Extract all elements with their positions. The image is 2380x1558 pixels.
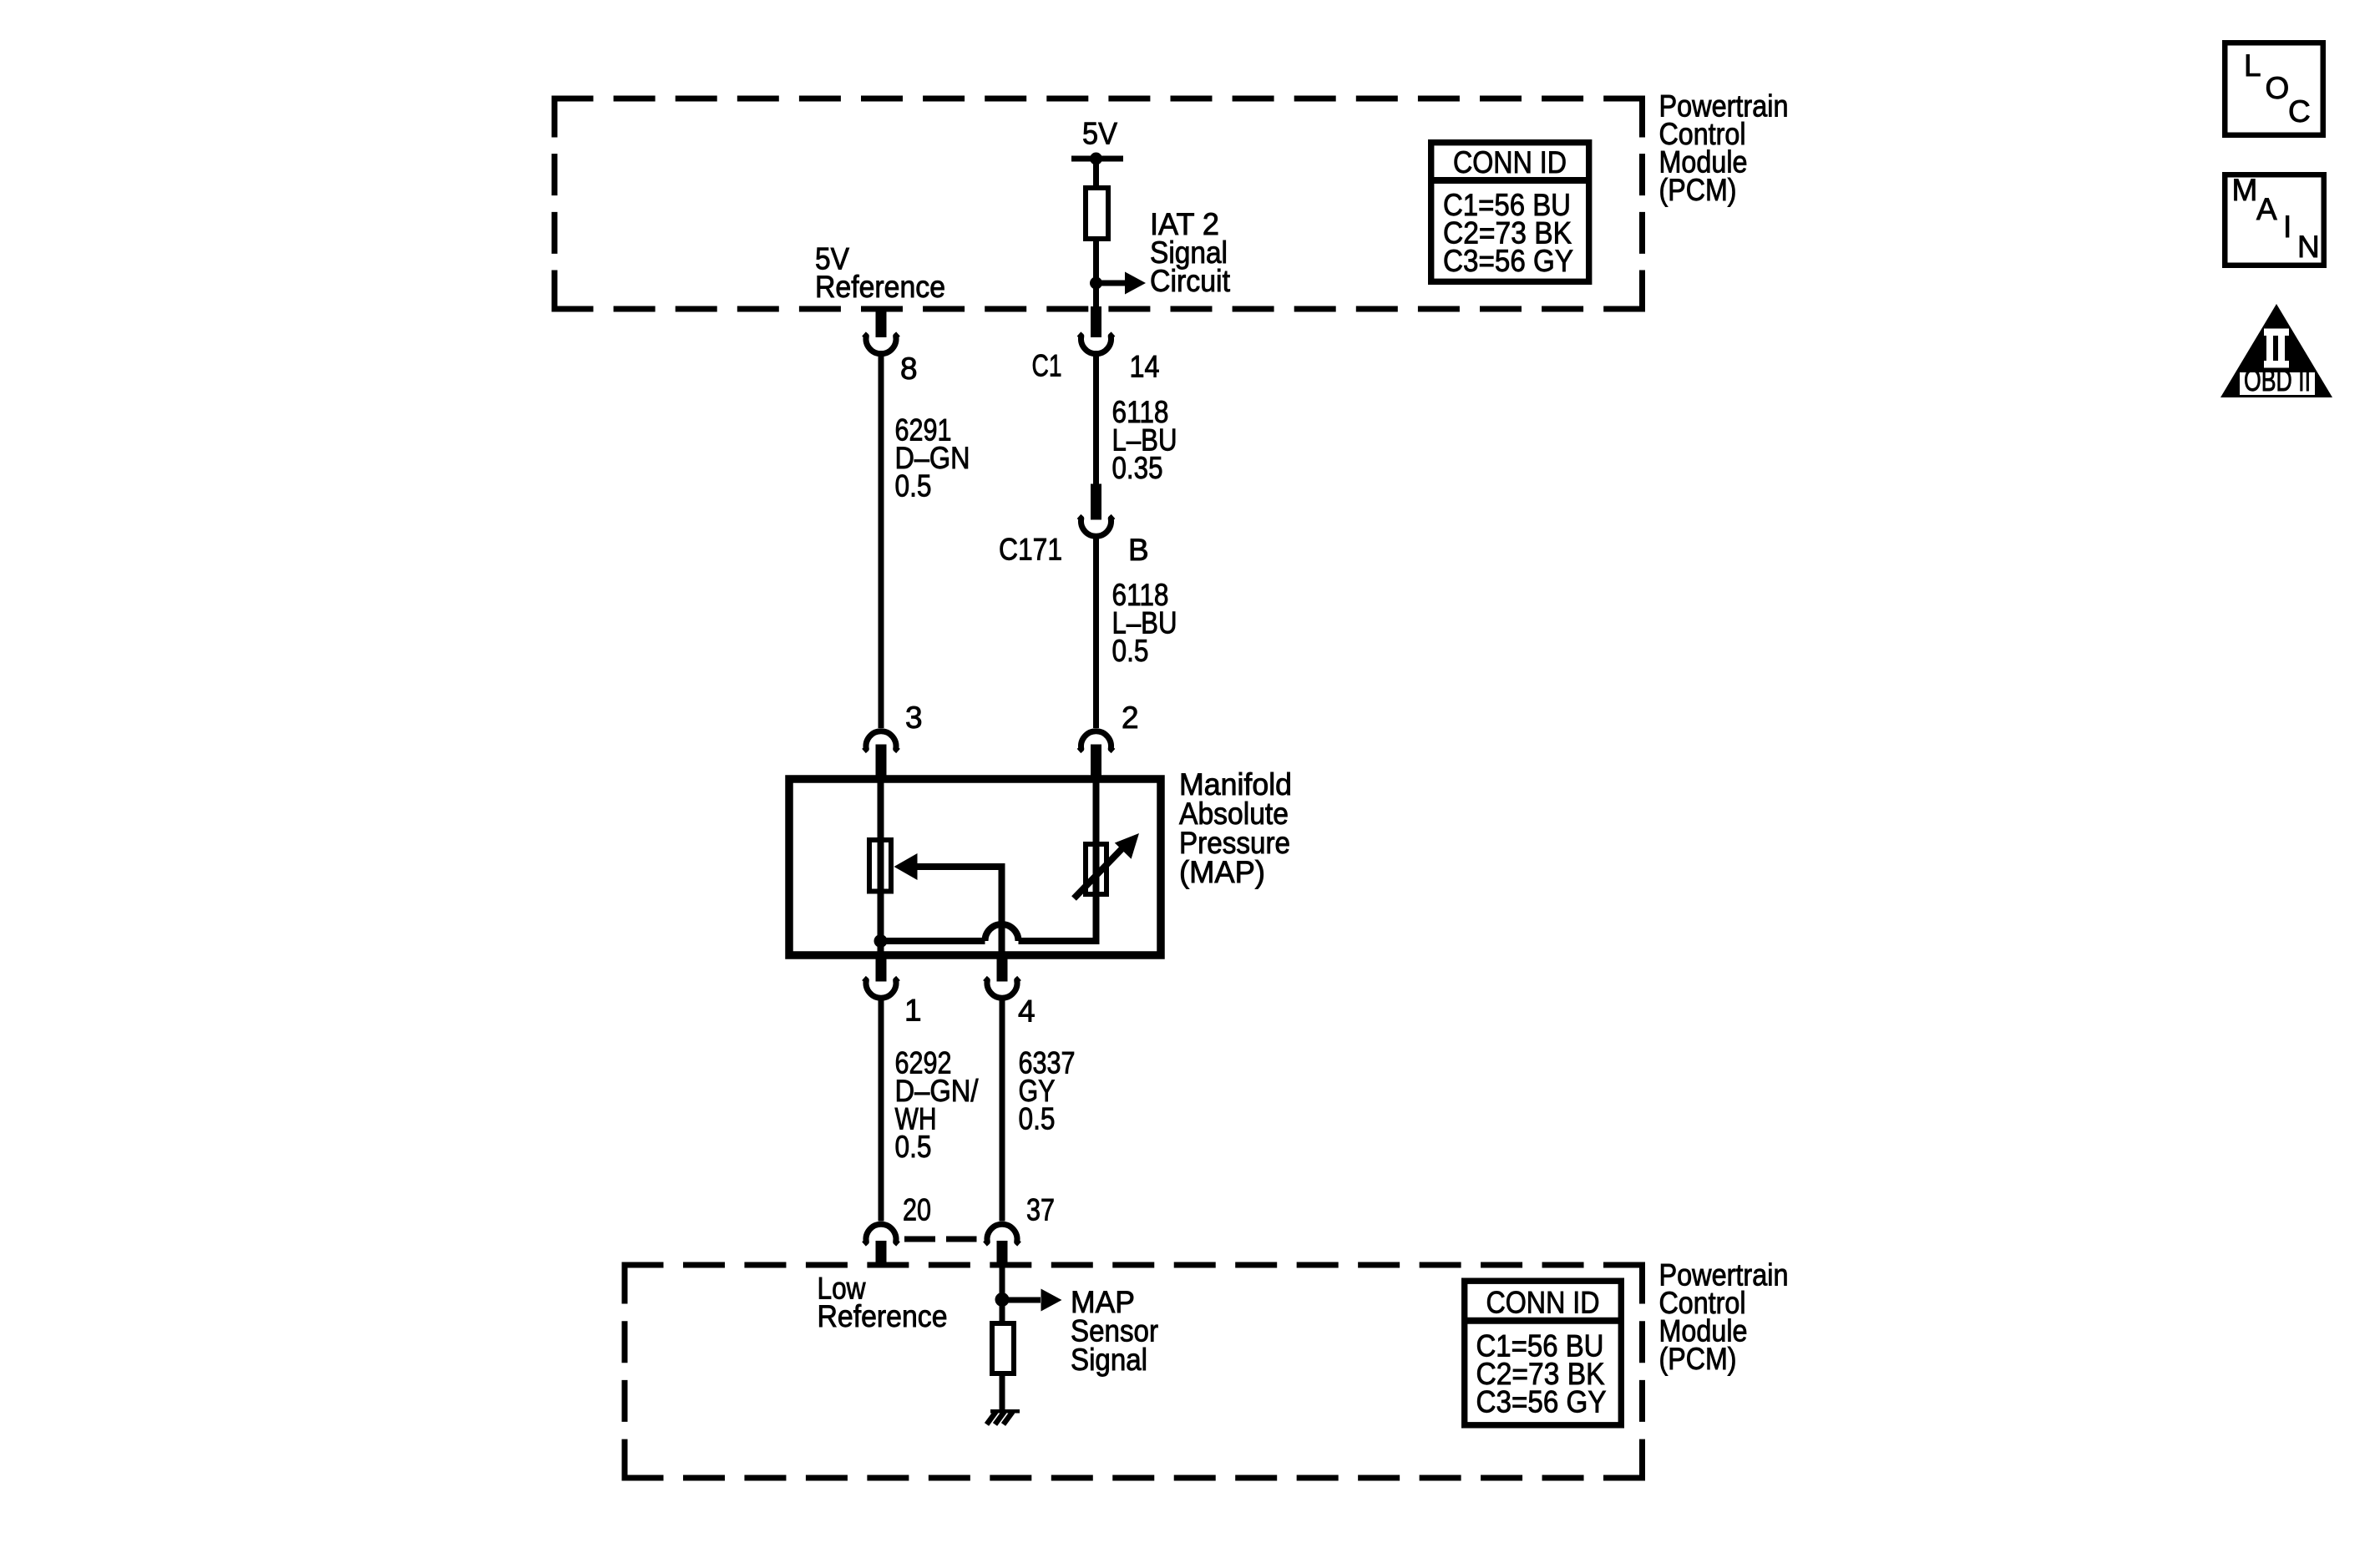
LOC box bbox=[2225, 43, 2323, 135]
wire 5V to resistor bbox=[1093, 159, 1099, 190]
wire junction to resistor bbox=[1000, 1300, 1005, 1323]
pin 8 connector cup bbox=[864, 334, 899, 354]
pin 3 connector cup bbox=[864, 731, 899, 751]
svg-text:37: 37 bbox=[1026, 1193, 1055, 1227]
svg-text:Reference: Reference bbox=[818, 1299, 948, 1333]
svg-text:C1: C1 bbox=[1032, 349, 1062, 383]
potentiometer resistor bbox=[869, 840, 891, 892]
variable resistor bbox=[1086, 844, 1106, 894]
svg-text:0.5: 0.5 bbox=[1019, 1102, 1056, 1136]
svg-text:8: 8 bbox=[900, 352, 918, 386]
ground bbox=[987, 1409, 1020, 1424]
svg-text:Signal: Signal bbox=[1071, 1343, 1147, 1377]
label 6118 L-BU 0.5 bbox=[1112, 578, 1177, 668]
label IAT 2 Signal Circuit bbox=[1150, 207, 1231, 298]
CONN ID table bottom bbox=[1465, 1281, 1622, 1425]
pin 20 stub bbox=[876, 1241, 887, 1268]
svg-text:B: B bbox=[1128, 533, 1149, 567]
pin 1 connector cup bbox=[864, 979, 899, 999]
wire 6118 0.35 (C1-14 to C171) bbox=[1093, 351, 1099, 494]
label Low Reference bbox=[818, 1272, 948, 1334]
junction dot MAP bbox=[874, 934, 888, 948]
label 6118 L-BU 0.35 bbox=[1112, 395, 1177, 485]
svg-text:2: 2 bbox=[1122, 701, 1139, 735]
pin 3 stub bbox=[876, 745, 887, 780]
MAP sensor box bbox=[789, 779, 1161, 955]
label Powertrain Control Module (PCM) bottom bbox=[1659, 1258, 1789, 1377]
wiper arrow line and vertical wire bbox=[915, 867, 1002, 955]
wire resistor to ground bbox=[1000, 1373, 1005, 1411]
svg-text:Reference: Reference bbox=[815, 270, 945, 304]
pin 20 connector cup bbox=[864, 1224, 899, 1244]
pin 2 connector cup bbox=[1079, 731, 1113, 751]
wire 6337 (pin 4 to pin 37) bbox=[1000, 995, 1005, 1222]
svg-text:(MAP): (MAP) bbox=[1179, 855, 1265, 889]
svg-text:O: O bbox=[2266, 71, 2290, 105]
wire 6118 0.5 (C171 to pin 2) bbox=[1093, 534, 1099, 728]
label MAP Sensor Signal bbox=[1071, 1285, 1158, 1377]
wire pin 37 into PCM bbox=[1000, 1265, 1005, 1300]
pin 4 stub bbox=[997, 955, 1008, 982]
label 5V Reference bbox=[815, 242, 945, 305]
pin 37 connector cup bbox=[985, 1224, 1020, 1244]
MAP sensor signal arrow bbox=[1002, 1289, 1062, 1312]
svg-text:CONN ID: CONN ID bbox=[1453, 145, 1567, 180]
wiper arrow head bbox=[894, 853, 918, 880]
svg-text:L: L bbox=[2244, 48, 2261, 83]
hop bump bbox=[985, 924, 1019, 941]
horizontal wire right segment bbox=[1019, 897, 1096, 941]
resistor IAT pullup bbox=[1086, 188, 1108, 239]
pin 8 stub bbox=[876, 306, 887, 337]
wire junction to box edge bbox=[1093, 283, 1099, 312]
junction dot MAP signal bbox=[995, 1292, 1010, 1307]
PCM top dashed box bbox=[552, 96, 1646, 312]
wire resistor to junction bbox=[1093, 239, 1099, 283]
svg-text:0.5: 0.5 bbox=[895, 1130, 932, 1164]
svg-text:I: I bbox=[2283, 210, 2291, 244]
svg-text:C: C bbox=[2288, 94, 2311, 129]
svg-text:0.5: 0.5 bbox=[895, 469, 932, 503]
junction dot IAT bbox=[1090, 277, 1102, 290]
resistor PCM pulldown bbox=[992, 1323, 1014, 1373]
svg-text:14: 14 bbox=[1130, 350, 1160, 384]
label Powertrain Control Module (PCM) top bbox=[1659, 89, 1789, 208]
svg-text:CONN ID: CONN ID bbox=[1486, 1286, 1600, 1320]
MAIN box bbox=[2225, 173, 2324, 266]
svg-text:A: A bbox=[2256, 192, 2277, 226]
label Manifold Absolute Pressure (MAP) bbox=[1179, 767, 1292, 889]
variable resistor arrow line bbox=[1074, 847, 1123, 898]
OBD II symbol bbox=[2220, 304, 2332, 397]
svg-text:0.5: 0.5 bbox=[1112, 634, 1149, 668]
pin 1 stub bbox=[876, 955, 887, 982]
pin C1-14 connector cup bbox=[1079, 334, 1113, 354]
svg-text:(PCM): (PCM) bbox=[1659, 173, 1737, 207]
pin 2 stub bbox=[1091, 745, 1101, 780]
wire 6292 (pin 1 to pin 20) bbox=[879, 995, 884, 1222]
connector C171 cup bbox=[1079, 517, 1113, 537]
svg-text:C171: C171 bbox=[999, 533, 1062, 567]
power feed dot bbox=[1090, 153, 1102, 165]
pin 4 connector cup bbox=[985, 979, 1020, 999]
CONN ID table top bbox=[1431, 143, 1589, 282]
MAP left wire (pin3 to pin1) bbox=[878, 779, 884, 955]
svg-text:Circuit: Circuit bbox=[1150, 264, 1231, 298]
power feed bar bbox=[1071, 156, 1123, 162]
IAT 2 signal arrow bbox=[1096, 272, 1147, 295]
svg-text:M: M bbox=[2232, 173, 2258, 207]
connector link dashes bbox=[904, 1237, 977, 1242]
svg-text:0.35: 0.35 bbox=[1112, 451, 1163, 485]
svg-text:N: N bbox=[2297, 230, 2320, 264]
wire 6291 (pin 8 to pin 3) bbox=[879, 351, 884, 728]
svg-text:1: 1 bbox=[904, 994, 922, 1028]
svg-text:OBD II: OBD II bbox=[2244, 363, 2311, 397]
svg-text:3: 3 bbox=[905, 701, 923, 735]
variable resistor arrow head bbox=[1115, 833, 1139, 859]
pin C1-14 stub bbox=[1091, 306, 1101, 337]
label 6291 D-GN 0.5 bbox=[895, 413, 970, 503]
svg-text:5V: 5V bbox=[1082, 117, 1117, 151]
svg-text:(PCM): (PCM) bbox=[1659, 1342, 1737, 1376]
horizontal wire left segment bbox=[881, 938, 985, 944]
svg-text:20: 20 bbox=[903, 1193, 931, 1227]
connector C171 stub bbox=[1091, 484, 1101, 520]
pin 37 stub bbox=[997, 1241, 1008, 1268]
svg-text:C3=56 GY: C3=56 GY bbox=[1476, 1385, 1607, 1419]
svg-text:4: 4 bbox=[1018, 994, 1036, 1029]
PCM bottom dashed box bbox=[622, 1262, 1646, 1481]
label 6292 D-GN/WH 0.5 bbox=[895, 1046, 980, 1165]
MAP right wire bbox=[1093, 779, 1100, 941]
label 6337 GY 0.5 bbox=[1019, 1046, 1076, 1136]
svg-text:C3=56 GY: C3=56 GY bbox=[1443, 244, 1573, 278]
